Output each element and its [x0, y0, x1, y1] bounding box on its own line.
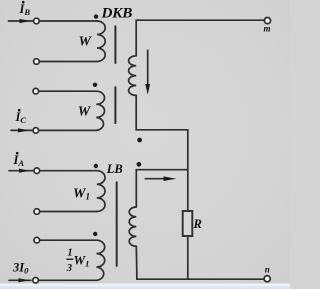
- wire W top (B phase): [39, 20, 97, 22]
- svg-text:W: W: [79, 35, 93, 50]
- wire W bottom (C phase): [36, 129, 97, 131]
- wire W top (C phase): [36, 90, 96, 92]
- svg-text:LB: LB: [106, 162, 123, 176]
- polarity dot LB secondary: [137, 162, 142, 167]
- wire W1 top (A phase): [39, 170, 97, 172]
- polarity dot W (B phase): [94, 14, 98, 18]
- core DKB lower bar: [114, 87, 116, 123]
- winding LB secondary coil: [129, 207, 136, 246]
- svg-text:DKB: DKB: [101, 5, 133, 22]
- label 1/3 W1: [66, 248, 90, 274]
- current arrow LB secondary (right): [145, 176, 176, 181]
- wire 1/3W1 top: [37, 239, 97, 241]
- terminal W-bottom-C: [33, 128, 39, 134]
- core LB bar: [116, 182, 118, 266]
- resistor R: [183, 211, 193, 236]
- current arrow I_C: [11, 128, 32, 132]
- terminal n: [264, 276, 270, 282]
- terminal W-bottom-B: [34, 59, 40, 65]
- current arrow I_A: [9, 169, 33, 173]
- wire DKB secondary to m: [136, 20, 264, 56]
- scan bottom strip: [0, 284, 290, 289]
- label I_A: [13, 152, 25, 168]
- terminal W1-top-A: [34, 168, 40, 174]
- winding DKB secondary coil: [129, 56, 137, 96]
- wire W bottom (B phase): [36, 61, 97, 63]
- label I_C: [15, 109, 27, 125]
- polarity dot 1/3W1: [93, 232, 97, 236]
- wire 1/3W1 bottom: [36, 279, 97, 281]
- svg-text:R: R: [193, 217, 202, 231]
- svg-text:1: 1: [67, 248, 72, 259]
- svg-text:n: n: [265, 265, 270, 275]
- wire LB secondary top lead: [136, 170, 188, 207]
- terminal m: [264, 18, 270, 24]
- terminal 1/3W1-top: [34, 237, 40, 243]
- wire DKB secondary bottom lead: [136, 95, 188, 129]
- polarity dot W1 (A phase): [94, 164, 98, 168]
- wire LB secondary bottom lead to n: [136, 246, 264, 279]
- current arrow DKB secondary (down): [145, 50, 150, 94]
- current arrow I_B: [9, 19, 34, 23]
- svg-text:W: W: [78, 104, 92, 119]
- svg-text:m: m: [264, 23, 271, 33]
- polarity dot DKB secondary: [137, 138, 142, 143]
- current arrow 3I0: [9, 278, 31, 282]
- wire resistor branch upper: [187, 130, 189, 211]
- terminal W1-bottom-A: [34, 209, 40, 215]
- polarity dot W (C phase): [93, 83, 97, 87]
- wire resistor branch lower: [187, 236, 189, 279]
- svg-text:3: 3: [66, 263, 72, 274]
- label I_B: [19, 1, 31, 17]
- wire W1 bottom (A phase): [37, 211, 97, 213]
- winding 1/3W1 coil: [97, 240, 105, 280]
- terminal 1/3W1-bottom: [33, 278, 39, 284]
- terminal W-top-C: [33, 88, 39, 94]
- winding W (B phase) coil: [97, 21, 105, 62]
- winding W (C phase) coil: [96, 91, 104, 130]
- terminal W-top-B: [34, 18, 40, 24]
- winding W1 (A phase) coil: [97, 171, 105, 212]
- core DKB upper bar: [114, 26, 116, 63]
